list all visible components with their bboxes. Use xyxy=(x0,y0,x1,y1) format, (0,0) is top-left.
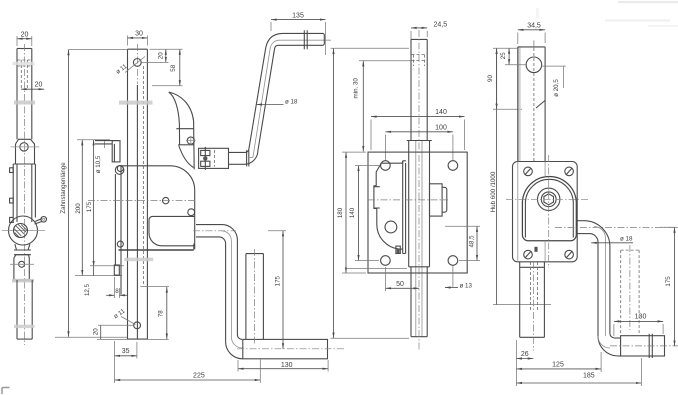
dim 30 top xyxy=(128,31,148,46)
svg-text:ø 13: ø 13 xyxy=(460,282,473,289)
dim 140 horizontal xyxy=(371,109,465,150)
svg-text:ø 11: ø 11 xyxy=(115,63,129,76)
svg-text:58: 58 xyxy=(170,64,177,71)
svg-text:ø 18: ø 18 xyxy=(285,98,298,105)
grip (view4) xyxy=(610,334,678,358)
svg-text:35: 35 xyxy=(122,348,130,355)
svg-text:200: 200 xyxy=(75,203,82,214)
dim 58 xyxy=(150,49,183,85)
svg-text:ø 18: ø 18 xyxy=(620,235,633,242)
rack bar below plate (view3) xyxy=(411,267,427,337)
svg-text:Hub 600 /1000: Hub 600 /1000 xyxy=(490,171,497,212)
shaft cross-section hatched (view1) xyxy=(14,224,28,238)
dim 48,5 (view3) xyxy=(445,226,480,260)
scan ghost marks top right xyxy=(536,1,678,27)
label diameter 10,5 xyxy=(95,140,105,173)
grip up (view2) xyxy=(246,249,264,345)
centerline (view3) xyxy=(418,30,420,351)
scan band view1 xyxy=(14,101,35,105)
dim Zahnstangenlaenge xyxy=(55,49,127,337)
clamp bolts left (view1) xyxy=(10,168,14,223)
hole d11 top (view2) xyxy=(115,57,145,76)
rack bar upper (view1) xyxy=(17,49,32,140)
clamp bar left (view2) xyxy=(114,166,121,295)
svg-text:min. 30: min. 30 xyxy=(353,78,360,99)
crank hub (view2) xyxy=(199,147,229,170)
gearbox body (view2) xyxy=(119,166,195,250)
upper crank pipe (view2) xyxy=(229,30,332,166)
label d20,5 leader xyxy=(541,66,566,97)
crank axis centerline (view2) xyxy=(237,348,345,350)
roller pin circle (view2) xyxy=(115,166,124,175)
dim 90 xyxy=(487,48,518,109)
lower crank pipe (view2) xyxy=(196,225,328,359)
centerline view1 xyxy=(23,44,25,345)
dim 175 (view2 crank) xyxy=(268,231,286,349)
svg-text:180: 180 xyxy=(337,207,344,218)
svg-text:125: 125 xyxy=(552,361,564,368)
dim Hub 600/1000 xyxy=(490,48,551,304)
svg-text:26: 26 xyxy=(521,351,529,358)
dim 175 (view2 left) xyxy=(77,140,124,267)
label d13 (view3) xyxy=(445,266,472,289)
svg-text:175: 175 xyxy=(665,276,672,287)
scan band view2 xyxy=(119,101,153,105)
svg-text:25: 25 xyxy=(500,52,507,59)
svg-text:48,5: 48,5 xyxy=(468,235,475,248)
grip alt position dashed (view4) xyxy=(621,245,639,336)
plate holes (view3) xyxy=(381,161,458,266)
round boss body (view1) xyxy=(2,216,45,245)
dim 8 (view2) xyxy=(106,277,127,298)
bar upper (view4) xyxy=(518,41,545,162)
dim 130 (view4) xyxy=(614,313,663,336)
svg-text:175: 175 xyxy=(274,275,281,286)
dim 50 (view3) xyxy=(385,267,419,291)
dim 20 (right of hole) xyxy=(142,49,169,62)
label d18 (view2) xyxy=(256,98,298,105)
dim 12,5 (view2 left) xyxy=(84,267,94,296)
dim 26 xyxy=(516,340,533,386)
dim 175 (view4) xyxy=(660,227,677,346)
dim 34,5 xyxy=(518,23,545,44)
centerlines (view4) xyxy=(506,155,678,268)
shaft circles (view4) xyxy=(538,188,560,210)
svg-text:34,5: 34,5 xyxy=(527,23,541,30)
svg-text:140: 140 xyxy=(349,207,356,218)
svg-text:12,5: 12,5 xyxy=(84,283,91,296)
rack bar lower (view1) xyxy=(17,280,32,339)
dim 200 (view2 left) xyxy=(75,140,122,276)
gearbox centerline (view2) xyxy=(88,200,195,202)
hole d20,5 (view4) xyxy=(526,57,542,73)
svg-text:50: 50 xyxy=(396,281,404,288)
dim 78 xyxy=(97,287,169,340)
svg-text:20: 20 xyxy=(21,32,29,39)
dim 225 xyxy=(115,360,261,384)
svg-text:8: 8 xyxy=(115,288,119,295)
svg-text:30: 30 xyxy=(135,31,143,38)
dim 20 top xyxy=(17,32,32,47)
rack bar (view3) xyxy=(411,39,427,336)
svg-text:130: 130 xyxy=(281,362,293,369)
dim 180 (view3) xyxy=(337,152,407,273)
svg-text:78: 78 xyxy=(158,310,165,317)
dim 100 horizontal xyxy=(385,125,453,161)
svg-text:225: 225 xyxy=(193,372,205,379)
gearbox screws (view2) xyxy=(117,166,194,248)
svg-text:175: 175 xyxy=(86,201,93,212)
crank pipe (view4) xyxy=(576,221,618,356)
svg-text:135: 135 xyxy=(292,13,304,20)
neck (view1) xyxy=(14,244,31,255)
rack wide section (view3) xyxy=(407,141,432,267)
scan band 2 view1 xyxy=(12,279,34,283)
svg-text:ø 10,5: ø 10,5 xyxy=(95,155,102,173)
dim 20 mid (view1) xyxy=(21,82,44,90)
svg-text:20: 20 xyxy=(157,52,164,59)
bar edges through plate (view4) xyxy=(518,162,545,262)
scan band below body (view2) xyxy=(124,258,153,262)
dim 125 xyxy=(516,352,601,372)
plate screws (view4) xyxy=(524,167,574,259)
corner scan mark bottom left xyxy=(2,388,10,395)
svg-text:100: 100 xyxy=(435,125,447,132)
svg-text:Zahnstangenlänge: Zahnstangenlänge xyxy=(60,162,67,214)
clevis lower (view1) xyxy=(10,255,34,280)
big dim line view3 height xyxy=(331,48,410,338)
dim 25 xyxy=(500,48,527,65)
dim 35 xyxy=(114,341,136,383)
dim 24,5 xyxy=(411,22,447,41)
lever knob (view1) xyxy=(35,217,47,225)
svg-text:90: 90 xyxy=(487,75,494,82)
housing tube (view1) xyxy=(13,164,35,222)
dim 135 xyxy=(271,13,325,56)
hole d11 bottom (view2) xyxy=(113,307,141,328)
svg-text:20: 20 xyxy=(93,328,100,335)
clevis head upper (view1) xyxy=(11,139,40,164)
shaft boss right (view3) xyxy=(430,184,447,216)
small tab (view4) xyxy=(534,247,537,252)
svg-text:20: 20 xyxy=(35,82,43,89)
dim 130 (view2) xyxy=(238,360,328,372)
gearbox plate (view4) xyxy=(513,162,578,262)
svg-text:185: 185 xyxy=(583,372,595,379)
dim 20 bottom (view2) xyxy=(93,325,134,339)
rack bar (view2) xyxy=(128,49,148,339)
bar below gearbox (view4) xyxy=(520,262,545,351)
label d18 (view4) xyxy=(591,235,633,243)
housing arch (view4) xyxy=(522,176,576,240)
mounting plate (view3) xyxy=(368,152,467,273)
svg-text:24,5: 24,5 xyxy=(434,22,448,29)
clamp block left (view2) xyxy=(95,141,120,162)
dim min 30 xyxy=(353,61,411,152)
pinion boss (view2) xyxy=(149,216,195,245)
svg-text:140: 140 xyxy=(435,109,447,116)
gearbox profile (view3) xyxy=(374,161,406,254)
sickle cover (view2) xyxy=(169,92,196,169)
scan band 3 view1 xyxy=(14,325,35,328)
dim 185 xyxy=(516,358,641,386)
dim 140 vertical (view3) xyxy=(349,166,379,261)
svg-text:130: 130 xyxy=(635,313,647,320)
centerline rack view2 xyxy=(136,44,138,84)
svg-text:ø 20,5: ø 20,5 xyxy=(553,79,560,97)
axis centerline (view3) xyxy=(368,199,448,201)
